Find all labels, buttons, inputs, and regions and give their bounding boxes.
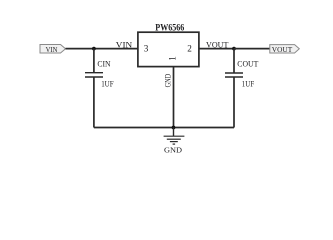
wire CIN bottom to rail — [93, 77, 95, 128]
svg-text:VOUT: VOUT — [272, 45, 293, 54]
junction at ground — [172, 126, 176, 130]
wire IC pin 2 to VOUT junction — [199, 48, 234, 50]
svg-text:1UF: 1UF — [101, 79, 114, 88]
wire COUT bottom to rail — [233, 77, 235, 128]
svg-text:3: 3 — [144, 43, 149, 53]
svg-text:VIN: VIN — [116, 40, 133, 50]
wire junction down to CIN — [93, 49, 95, 73]
capacitor COUT — [225, 73, 243, 77]
svg-text:2: 2 — [187, 43, 192, 53]
svg-text:CIN: CIN — [97, 59, 110, 68]
capacitor CIN — [85, 73, 103, 77]
wire VIN port to IC pin 3 — [66, 48, 138, 50]
wire junction to VOUT port — [234, 48, 270, 50]
svg-text:1: 1 — [168, 56, 178, 61]
bottom rail wire — [94, 127, 234, 129]
svg-text:1UF: 1UF — [242, 80, 255, 89]
junction at CIN top — [92, 47, 96, 51]
port VIN — [40, 45, 66, 54]
svg-text:GND: GND — [164, 145, 183, 154]
IC U1 PW6566 body — [138, 32, 199, 66]
wire IC GND pin down — [173, 67, 175, 128]
svg-text:COUT: COUT — [237, 60, 258, 69]
port VOUT — [270, 45, 300, 54]
wire junction down to COUT — [233, 49, 235, 73]
svg-text:VIN: VIN — [46, 45, 58, 54]
svg-text:GND: GND — [164, 74, 173, 88]
junction at COUT top — [232, 47, 236, 51]
svg-text:VOUT: VOUT — [206, 40, 229, 50]
ground — [164, 128, 185, 145]
svg-text:PW6566: PW6566 — [155, 24, 184, 34]
